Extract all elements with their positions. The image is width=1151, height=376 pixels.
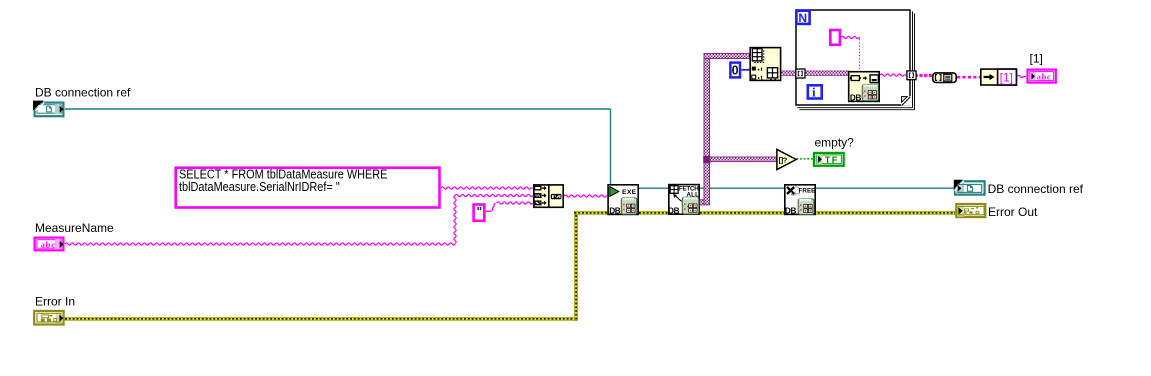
svg-text:N: N bbox=[798, 11, 807, 25]
svg-text:[]?: []? bbox=[779, 155, 788, 164]
svg-text:DB: DB bbox=[609, 207, 621, 216]
svg-text:FREE: FREE bbox=[799, 187, 816, 194]
svg-text:t: t bbox=[761, 76, 763, 82]
svg-text:DB: DB bbox=[850, 94, 862, 103]
svg-text:i: i bbox=[812, 85, 816, 100]
svg-text:EXE: EXE bbox=[622, 189, 637, 196]
svg-text:0: 0 bbox=[732, 64, 739, 78]
svg-text:[1]: [1] bbox=[1000, 71, 1013, 85]
svg-text:t: t bbox=[761, 67, 763, 73]
svg-text:abc: abc bbox=[1037, 73, 1051, 82]
svg-text:empty?: empty? bbox=[815, 136, 855, 150]
svg-text:DB: DB bbox=[785, 207, 797, 216]
svg-text:Error Out: Error Out bbox=[988, 205, 1038, 219]
svg-text:tblDataMeasure.SerialNrIDRef=: tblDataMeasure.SerialNrIDRef= " bbox=[179, 179, 340, 194]
svg-text:DB connection ref: DB connection ref bbox=[988, 182, 1084, 196]
svg-text:abc: abc bbox=[41, 239, 56, 249]
svg-text:Error In: Error In bbox=[35, 294, 75, 308]
svg-text:DB: DB bbox=[668, 207, 680, 216]
svg-text:[1]: [1] bbox=[1030, 52, 1043, 66]
svg-text:MeasureName: MeasureName bbox=[35, 221, 114, 235]
svg-text:TF: TF bbox=[825, 155, 839, 165]
svg-text:DB connection ref: DB connection ref bbox=[35, 85, 131, 99]
